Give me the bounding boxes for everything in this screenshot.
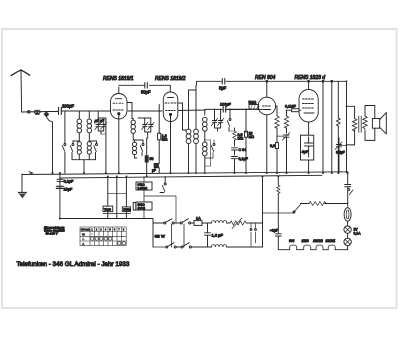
- switch near cap: [348, 189, 353, 207]
- capacitor 100pF: [220, 103, 248, 113]
- svg-text:µF: µF: [152, 169, 156, 173]
- top cap rail tube1-tube2: [119, 85, 171, 92]
- svg-text:1,2 µF: 1,2 µF: [212, 233, 224, 238]
- tube RENS1819/2: [163, 92, 178, 173]
- dial lamp 2: [344, 228, 361, 250]
- svg-text:1823: 1823: [302, 239, 309, 243]
- svg-text:SB W: SB W: [155, 234, 165, 239]
- main bus y173: [22, 172, 348, 175]
- svg-text:W: W: [82, 232, 85, 236]
- coil L9: [203, 110, 208, 140]
- coil L1: [77, 111, 82, 141]
- bottom tie block1: [72, 160, 96, 173]
- coil L10: [203, 140, 208, 173]
- resistor 1,6MOhm: [158, 105, 168, 164]
- bypass cap bottom: [152, 164, 159, 174]
- ground: [18, 192, 26, 197]
- switch S3: [89, 141, 97, 160]
- svg-text:4µF: 4µF: [302, 149, 310, 154]
- svg-text:200pF: 200pF: [62, 104, 74, 109]
- dial lamp 1: [344, 221, 351, 233]
- svg-text:0,1MF: 0,1MF: [285, 105, 296, 109]
- switch gang links: [172, 224, 185, 247]
- anode lead tube2: [178, 103, 183, 130]
- svg-text:0,1µF: 0,1µF: [239, 157, 249, 161]
- tube REN904: [258, 80, 276, 173]
- svg-text:RENS 1819/1: RENS 1819/1: [103, 76, 134, 82]
- resistor R det: [229, 128, 243, 146]
- svg-text:S|Walle: S|Walle: [81, 228, 91, 232]
- speaker: [372, 113, 386, 134]
- urdox regulator: [344, 208, 351, 222]
- switch S6: [205, 140, 215, 158]
- choke box DRM: [122, 207, 130, 212]
- arrester: [44, 112, 49, 117]
- variable cap right: [335, 138, 347, 173]
- IF coil L5: [131, 119, 135, 141]
- coil L3: [77, 142, 81, 160]
- mains switch row 2: [166, 243, 206, 248]
- IF coil L6: [132, 140, 136, 158]
- coil L2: [87, 111, 92, 141]
- svg-text:DRM: DRM: [123, 208, 130, 212]
- svg-text:Telefunken - 346 GL Admiral -: Telefunken - 346 GL Admiral - Jahr 1933: [17, 261, 130, 268]
- trimmer caps block4: [211, 109, 224, 131]
- svg-text:2,25kΩ: 2,25kΩ: [138, 186, 148, 190]
- svg-text:1819/1: 1819/1: [326, 239, 336, 243]
- svg-text:50: 50: [150, 157, 154, 161]
- right verticals: [322, 81, 324, 173]
- switch S2: [70, 141, 79, 160]
- svg-text:C 04: C 04: [239, 148, 247, 152]
- vertical x176: [144, 196, 176, 223]
- wire down from arrester: [46, 117, 52, 173]
- right vertical block1: [98, 118, 106, 173]
- svg-text:5pF: 5pF: [219, 86, 227, 91]
- svg-text:0,3: 0,3: [270, 144, 275, 148]
- svg-text:≈1µF: ≈1µF: [270, 229, 279, 233]
- svg-text:1819/2: 1819/2: [313, 239, 323, 243]
- antenna coupling plug: [28, 111, 31, 114]
- svg-text:MΩ: MΩ: [249, 135, 255, 139]
- svg-text:TA60: TA60: [104, 207, 111, 211]
- left RC pair: [56, 173, 74, 219]
- second bus y176.5: [60, 175, 322, 178]
- mains choke top: [212, 221, 231, 223]
- electrolytic box 4uF: [301, 122, 314, 173]
- link lines: [108, 193, 127, 195]
- wave switch S1: [62, 111, 66, 173]
- mains switch row 1: [164, 219, 194, 224]
- pickup arrow: [263, 205, 301, 214]
- svg-text:100pF: 100pF: [220, 103, 231, 107]
- capacitor 5pF: [219, 79, 227, 91]
- trimmer caps block2: [138, 118, 154, 138]
- output transformer primary: [347, 106, 357, 145]
- svg-text:A: A: [82, 242, 84, 246]
- capacitor 200pF: [59, 104, 75, 115]
- trimmer caps block1: [95, 111, 107, 134]
- anode lead tube1: [127, 103, 132, 119]
- voltage selector contacts: [250, 223, 262, 247]
- ground lead: [21, 174, 23, 192]
- switch between boxes: [160, 177, 166, 193]
- resistor Rb: [284, 110, 288, 133]
- resistor on 338 line: [336, 118, 340, 126]
- antenna: [11, 70, 30, 112]
- output transformer secondary: [363, 106, 375, 141]
- tube RENS1823d: [299, 80, 318, 122]
- coupling cap 0,1MF: [285, 105, 301, 112]
- mains cap: [345, 173, 351, 189]
- tube RENS1819/1: [111, 87, 128, 173]
- cap 1,2uF: [205, 223, 224, 247]
- small rect left of box: [133, 203, 136, 211]
- svg-text:904: 904: [289, 239, 295, 243]
- svg-text:15µF: 15µF: [64, 188, 73, 192]
- capacitor 50pF: [141, 83, 151, 95]
- variable cap mid: [277, 133, 290, 174]
- note text: [44, 225, 65, 235]
- transformer core: [359, 116, 361, 132]
- band table: [80, 227, 126, 246]
- grid resistor left of REN904: [249, 101, 260, 110]
- drop wires to chokes: [107, 177, 109, 219]
- dropper resistor vertical: [277, 177, 280, 234]
- svg-text:50pF: 50pF: [141, 90, 151, 95]
- svg-text:59-140 V: 59-140 V: [46, 232, 59, 236]
- link to row: [153, 219, 164, 248]
- resistor Ra: [275, 106, 279, 143]
- box link verticals: [143, 177, 145, 219]
- padder cap: [145, 138, 153, 177]
- resistor column x246: [245, 109, 255, 173]
- wire antenna to input: [22, 110, 58, 113]
- volume potentiometer: [301, 202, 348, 206]
- switch S5: [227, 109, 231, 131]
- mains choke bottom: [206, 245, 263, 247]
- svg-text:0,1µF: 0,1µF: [64, 180, 74, 184]
- resistor Rc: [270, 143, 279, 173]
- svg-text:5MΩ: 5MΩ: [249, 101, 257, 105]
- tap bracket: [205, 140, 211, 166]
- resistor box 20k: [136, 202, 152, 210]
- grid wire bus y111: [61, 109, 262, 111]
- svg-text:REN 904: REN 904: [255, 75, 276, 81]
- coil L4: [87, 141, 91, 160]
- coupling element: [34, 110, 37, 113]
- fuse 1A: [194, 217, 212, 226]
- choke box TA60: [103, 206, 113, 212]
- svg-text:RENS 1823 d: RENS 1823 d: [295, 75, 326, 81]
- switch S4: [135, 140, 145, 156]
- svg-text:RENS 1819/2: RENS 1819/2: [155, 76, 186, 82]
- svg-text:1A: 1A: [196, 217, 201, 221]
- bottom bus y218.5: [60, 218, 153, 220]
- arrow on bus: [29, 172, 33, 175]
- svg-text:MΩ: MΩ: [162, 137, 168, 141]
- coil L8: [189, 85, 199, 173]
- cap 1uF bottom: [270, 229, 283, 250]
- cap pair det: [232, 148, 249, 173]
- svg-text:MΩ: MΩ: [238, 137, 244, 141]
- variable resistor mains: [230, 218, 251, 229]
- resistor box R 2,25k: [136, 182, 152, 190]
- svg-text:0,5µF: 0,5µF: [336, 151, 345, 155]
- vertical x262.5: [262, 177, 264, 248]
- top rail right section: [197, 81, 347, 85]
- svg-text:(SA0): (SA0): [138, 206, 146, 210]
- svg-text:0,1A: 0,1A: [354, 232, 362, 236]
- heater chain: [283, 245, 348, 250]
